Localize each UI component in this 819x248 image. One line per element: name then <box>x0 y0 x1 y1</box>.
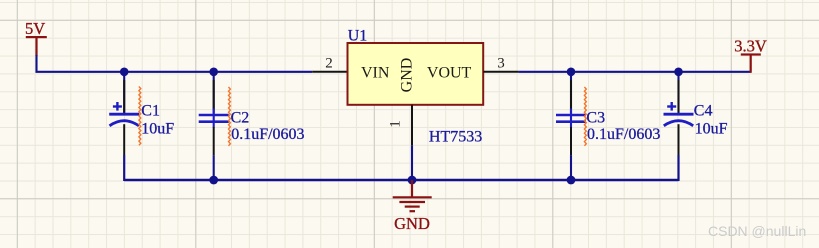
svg-text:3.3V: 3.3V <box>734 37 767 56</box>
svg-text:GND: GND <box>394 214 430 233</box>
svg-text:GND: GND <box>399 58 416 93</box>
pin 3 of U1 <box>483 71 518 73</box>
svg-text:C1: C1 <box>141 103 160 120</box>
capacitor C3 (0.1uF/0603) <box>556 72 586 180</box>
svg-text:C3: C3 <box>586 110 605 127</box>
capacitor C2 (0.1uF/0603) <box>199 72 229 180</box>
ground symbol GND <box>393 180 432 233</box>
regulator U1 body <box>348 43 484 105</box>
svg-text:HT7533: HT7533 <box>429 128 482 145</box>
ground rail wire <box>124 179 678 181</box>
svg-text:C2: C2 <box>231 110 250 127</box>
svg-text:0.1uF/0603: 0.1uF/0603 <box>587 126 660 143</box>
wire pin3 of U1 to 3.3V <box>518 71 750 73</box>
svg-text:2: 2 <box>325 55 333 71</box>
svg-text:VIN: VIN <box>361 64 390 81</box>
pin 1 of U1 (ground pin) <box>411 105 413 146</box>
compile mark squiggle C3 <box>584 87 586 146</box>
junction at C2 top <box>209 68 218 77</box>
junction at pin1 / ground <box>408 176 417 185</box>
svg-text:CSDN @nullLin: CSDN @nullLin <box>708 223 806 239</box>
svg-text:1: 1 <box>388 120 404 128</box>
svg-text:5V: 5V <box>25 19 45 38</box>
svg-text:3: 3 <box>497 55 505 71</box>
svg-text:10uF: 10uF <box>695 121 728 138</box>
junction at C4 top <box>674 68 683 77</box>
junction at C3 top <box>567 68 576 77</box>
svg-text:U1: U1 <box>348 28 368 45</box>
svg-text:10uF: 10uF <box>141 121 174 138</box>
junction at C1 top <box>120 68 129 77</box>
wire 5V to pin2 of U1 <box>37 55 313 72</box>
svg-text:C4: C4 <box>694 103 713 120</box>
wire pin1 to ground rail <box>411 145 413 180</box>
capacitor C1 (polarized, 10uF) <box>109 72 139 181</box>
junction at C3 bottom <box>567 176 576 185</box>
svg-text:VOUT: VOUT <box>427 64 472 81</box>
power port 5V <box>25 19 47 56</box>
pin 2 of U1 <box>312 71 347 73</box>
capacitor C4 (polarized, 10uF) <box>664 72 694 181</box>
junction at C2 bottom <box>209 176 218 185</box>
compile mark squiggle C1 <box>139 87 141 146</box>
compile mark squiggle C2 <box>229 87 231 146</box>
svg-text:0.1uF/0603: 0.1uF/0603 <box>231 126 304 143</box>
power port 3.3V <box>734 37 767 73</box>
